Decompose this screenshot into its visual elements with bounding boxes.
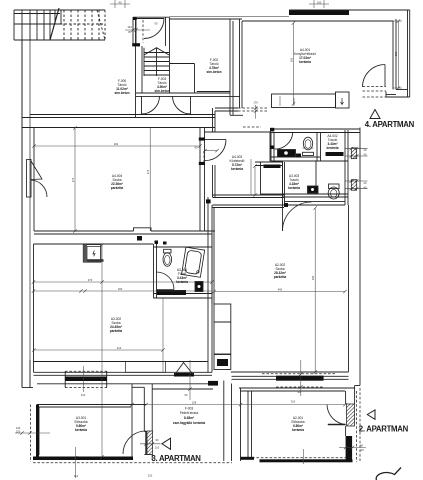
bathtub (182, 247, 205, 277)
svg-text:310: 310 (291, 400, 296, 404)
svg-text:470: 470 (88, 278, 93, 282)
A4-004 east wall (199, 128, 201, 232)
staircase dashed treads (60, 10, 105, 40)
svg-text:kerámia: kerámia (299, 60, 311, 64)
svg-text:3. APARTMAN: 3. APARTMAN (152, 454, 202, 463)
shower stall (261, 162, 283, 194)
wall dark bars (65, 128, 344, 386)
wall between A3-001 and terrace (131, 384, 133, 457)
svg-text:335: 335 (394, 51, 398, 56)
kitchen counter (272, 94, 336, 108)
kitchen entry door (363, 65, 386, 88)
hall east wall (269, 132, 271, 162)
svg-text:490: 490 (278, 288, 283, 292)
F-000 storage walls (30, 114, 215, 116)
svg-text:kerámia: kerámia (231, 167, 243, 171)
kitchen sink arrow (341, 98, 344, 105)
svg-text:310: 310 (148, 474, 153, 478)
shaft column (214, 304, 231, 354)
door A2-001 entry (327, 405, 346, 425)
window ticks right wall (345, 149, 368, 189)
sink bath A3-004 (195, 282, 203, 292)
svg-text:sim.beton: sim.beton (206, 70, 221, 74)
north symbol bottom right (376, 468, 401, 480)
room A2-001 walls (239, 387, 355, 389)
svg-text:335: 335 (311, 275, 315, 280)
svg-text:F-003: F-003 (185, 407, 194, 411)
room A4-004 walls (33, 128, 35, 232)
doors (27, 65, 386, 455)
washbasin A4-002 (278, 150, 296, 158)
svg-text:8.38m²: 8.38m² (184, 416, 194, 420)
hall A4-003 walls (212, 108, 214, 132)
terrace edge (152, 388, 213, 390)
svg-text:kerámia: kerámia (75, 428, 87, 432)
entry court walls top right (392, 21, 394, 90)
svg-text:sim.beton: sim.beton (154, 89, 169, 93)
svg-text:parketta: parketta (110, 329, 123, 333)
bath A3-004 walls (153, 244, 155, 298)
A3-002 terrace door triangle (175, 363, 194, 376)
svg-text:210: 210 (81, 393, 86, 397)
washroom A4-002 walls (271, 128, 360, 130)
toilet bath A3-004 (163, 253, 172, 267)
window A4-004 west (27, 160, 32, 198)
svg-text:103: 103 (127, 25, 132, 29)
svg-text:kerámia: kerámia (288, 186, 300, 190)
svg-text:275: 275 (146, 169, 150, 174)
top wall dark bar (289, 11, 349, 16)
svg-text:210: 210 (155, 446, 160, 450)
svg-text:179: 179 (253, 101, 258, 105)
svg-text:414: 414 (117, 346, 122, 350)
dashed lines (31, 20, 387, 463)
svg-text:2. APARTMAN: 2. APARTMAN (359, 425, 409, 434)
svg-text:160: 160 (118, 287, 123, 291)
room A2-002 walls (211, 205, 213, 304)
right outer wall lower (359, 128, 361, 386)
wall right of F-000 (135, 19, 137, 117)
hall to washroom door (275, 133, 293, 149)
main block top wall (22, 127, 215, 129)
fixtures (163, 98, 344, 292)
apartment entry triangles (162, 110, 380, 450)
svg-text:140: 140 (16, 426, 21, 430)
door to room A2-002 (283, 202, 312, 231)
F-000 door vestibule (133, 16, 170, 18)
bath A3-004 door (157, 272, 175, 290)
svg-text:120: 120 (359, 448, 364, 452)
svg-text:108: 108 (192, 401, 197, 405)
F-002 storage walls (170, 18, 243, 20)
storage exit doors (141, 96, 143, 114)
room A3-001 walls (22, 387, 33, 389)
svg-text:parketta: parketta (111, 186, 124, 190)
svg-text:150: 150 (317, 1, 322, 5)
door A4-004 to hall (205, 139, 226, 141)
kitchen walls (239, 19, 241, 108)
svg-text:505: 505 (290, 57, 294, 62)
toilet shower room (328, 187, 339, 199)
svg-text:csm.fagyálló kerámia: csm.fagyálló kerámia (173, 421, 205, 425)
svg-text:parketta: parketta (274, 275, 287, 279)
staircase top-left (14, 8, 105, 40)
svg-text:275: 275 (71, 177, 75, 182)
svg-text:Fedett terasz: Fedett terasz (180, 411, 199, 415)
svg-text:4. APARTMAN: 4. APARTMAN (365, 120, 415, 129)
svg-text:kerámia: kerámia (326, 146, 338, 150)
svg-text:kerámia: kerámia (176, 280, 188, 284)
room A3-002 walls (34, 243, 154, 245)
sink shower room (308, 186, 319, 193)
toilet washroom A4-002 (303, 137, 312, 150)
svg-text:220: 220 (16, 430, 21, 434)
svg-text:kerámia: kerámia (292, 428, 304, 432)
svg-text:312: 312 (74, 474, 79, 478)
svg-text:292: 292 (114, 142, 119, 146)
shower A3-003 walls (283, 193, 349, 195)
left outer wall (21, 40, 23, 388)
svg-text:sim.beton: sim.beton (114, 91, 129, 95)
boiler box (83, 245, 101, 263)
door A3-001 (123, 431, 146, 454)
hatched door posts (147, 148, 357, 455)
door arc F-000 vestibule (144, 19, 164, 39)
window sill (126, 362, 166, 373)
interior stair F-003 (144, 48, 169, 76)
